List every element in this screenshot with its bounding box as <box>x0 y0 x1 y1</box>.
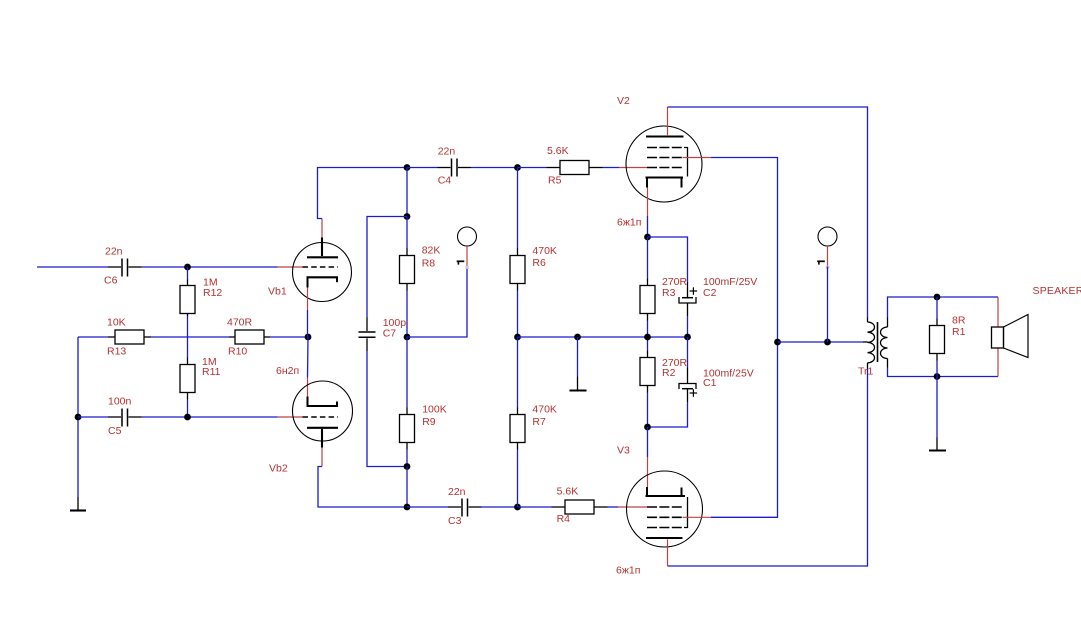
node col A / C7 branch <box>404 213 411 220</box>
svg-text:82K: 82K <box>422 245 441 257</box>
svg-text:22n: 22n <box>448 486 466 498</box>
V3 pin cathode <box>647 457 649 487</box>
svg-text:100n: 100n <box>108 396 132 408</box>
svg-text:5.6K: 5.6K <box>557 486 579 498</box>
triode Vb1 <box>268 238 352 302</box>
node bus ground <box>574 334 581 341</box>
wire B+ row <box>778 341 864 343</box>
svg-text:6ж1п: 6ж1п <box>616 565 640 577</box>
wire bottom row to C3 <box>407 506 448 508</box>
svg-text:R11: R11 <box>202 366 221 378</box>
node C5/R11 <box>184 414 191 421</box>
node C5 left <box>75 414 82 421</box>
node g2 rail <box>774 339 781 346</box>
svg-text:R2: R2 <box>662 367 676 379</box>
wire node to R5 <box>518 167 547 169</box>
svg-text:C2: C2 <box>703 287 717 299</box>
svg-text:SPEAKER: SPEAKER <box>1033 285 1081 297</box>
node bottom row R7 <box>514 504 521 511</box>
wire R12 to R11 <box>187 317 189 358</box>
resistor R2 <box>640 351 688 393</box>
wire C3 to node <box>482 506 518 508</box>
wire V2 anode row <box>668 107 868 318</box>
svg-text:R3: R3 <box>662 287 676 299</box>
node V2 cathode <box>644 234 651 241</box>
wire top row to C4 <box>407 167 438 169</box>
resistor R3 <box>640 276 688 320</box>
wire secondary top <box>888 297 999 318</box>
wire terminal 2 down <box>827 267 829 343</box>
wire input row <box>37 266 108 268</box>
svg-text:470K: 470K <box>532 404 557 416</box>
pentode V3 <box>616 471 703 577</box>
triode Vb2 <box>269 381 353 475</box>
svg-text:470R: 470R <box>227 316 253 328</box>
Vb1 pin cathode <box>307 288 309 311</box>
svg-text:R13: R13 <box>107 346 126 358</box>
node bus col A <box>404 334 411 341</box>
wire col A to R8 <box>406 217 408 249</box>
wire R5 to V2 grid <box>603 167 620 169</box>
svg-text:R1: R1 <box>952 326 966 338</box>
wire R3 to bus <box>647 321 649 351</box>
wire C5 to Vb2 grid <box>142 416 278 418</box>
node R1 bottom <box>934 373 941 380</box>
svg-text:C3: C3 <box>448 515 462 527</box>
V3 pin anode <box>667 539 669 566</box>
node bus C1 <box>684 334 691 341</box>
wire secondary bottom <box>888 368 999 377</box>
svg-text:22n: 22n <box>105 246 123 258</box>
speaker pins <box>997 297 999 327</box>
svg-text:C5: C5 <box>108 425 122 437</box>
node R1 top <box>934 294 941 301</box>
resistor R8 <box>400 245 441 291</box>
svg-text:R12: R12 <box>203 287 222 299</box>
svg-text:R4: R4 <box>557 513 571 525</box>
resistor R13 <box>107 316 151 357</box>
wire C7 bottom to node <box>367 351 407 467</box>
svg-text:R5: R5 <box>548 175 562 187</box>
wire node to R4 <box>518 506 552 508</box>
wire col A top <box>406 168 408 217</box>
ground mid <box>570 337 587 391</box>
wire V3 anode row <box>668 369 868 567</box>
resistor R5 <box>547 145 603 187</box>
wire R2 to V3 node <box>647 393 649 428</box>
wire Vb1 anode to top row <box>318 168 408 219</box>
svg-text:22n: 22n <box>438 146 456 158</box>
resistor R9 <box>400 404 447 450</box>
capacitor C2 <box>679 276 757 316</box>
wire C5 row left <box>78 416 108 418</box>
wire node to Vb2 cathode <box>307 337 310 378</box>
svg-text:Tr1: Tr1 <box>858 366 874 378</box>
svg-text:V3: V3 <box>617 445 630 457</box>
wire C1 to V3 node <box>648 402 688 427</box>
capacitor C6 <box>104 246 142 287</box>
svg-text:6н2п: 6н2п <box>276 365 299 377</box>
resistor R6 <box>510 168 557 338</box>
capacitor C7 <box>359 317 407 351</box>
terminal 1 left <box>457 227 477 269</box>
V3 pin g2 <box>683 516 712 518</box>
V2 pin cathode <box>647 188 649 217</box>
svg-text:470K: 470K <box>532 245 557 257</box>
wire Vb2 anode to bottom row <box>318 467 407 508</box>
Vb1 pin anode <box>321 219 323 238</box>
node cathode junction <box>305 334 312 341</box>
wire R13 to R10 <box>151 336 229 338</box>
pentode V2 <box>617 95 702 228</box>
svg-text:C6: C6 <box>104 275 118 287</box>
node terminal 2 <box>824 339 831 346</box>
svg-text:R6: R6 <box>532 257 546 269</box>
wire node to R12 <box>187 267 189 280</box>
transformer Tr1 <box>858 318 888 378</box>
wire node to bottom row <box>406 467 408 508</box>
ground right <box>929 377 946 451</box>
resistor R10 <box>227 316 270 357</box>
svg-text:R7: R7 <box>532 416 546 428</box>
wire C6 to Vb1 grid <box>142 266 278 268</box>
capacitor C5 <box>108 396 142 438</box>
svg-text:C4: C4 <box>438 175 452 187</box>
svg-text:10K: 10K <box>107 316 126 328</box>
node bus R6/R7 <box>514 334 521 341</box>
wire left rail <box>77 337 79 497</box>
svg-text:5.6K: 5.6K <box>547 145 569 157</box>
wire g2 rail <box>711 158 778 518</box>
resistor R11 <box>180 356 221 399</box>
wire C2 to bus <box>687 316 689 337</box>
svg-text:R8: R8 <box>422 257 436 269</box>
terminal 1 right <box>817 227 837 269</box>
svg-text:Vb2: Vb2 <box>269 463 288 475</box>
svg-text:C1: C1 <box>703 377 717 389</box>
node bus R2 <box>644 334 651 341</box>
Vb2 pin cathode <box>307 378 309 397</box>
wire node to V3 <box>647 427 649 457</box>
wire R9 column <box>406 337 408 408</box>
capacitor C3 <box>448 486 482 527</box>
wire V2 cathode <box>647 216 649 237</box>
node top row R6 <box>514 164 521 171</box>
wire bus to terminal branch <box>407 267 467 338</box>
Vb2 pin anode <box>321 448 323 467</box>
node C6/R12 <box>184 264 191 271</box>
svg-text:100K: 100K <box>422 404 447 416</box>
wire Vb1 cathode to node <box>307 310 309 334</box>
node C7/R9 <box>404 463 411 470</box>
svg-text:R9: R9 <box>422 416 436 428</box>
wire R8 to bus <box>406 291 408 338</box>
svg-text:R10: R10 <box>228 346 247 358</box>
capacitor C1 <box>679 337 754 402</box>
svg-text:C7: C7 <box>383 328 397 340</box>
svg-text:V2: V2 <box>617 95 630 107</box>
resistor R7 <box>510 337 557 507</box>
wire R9 to node <box>406 450 408 467</box>
svg-text:8R: 8R <box>952 315 966 327</box>
wire R11 to C5 row <box>187 400 189 418</box>
wire node to R3 <box>647 237 649 279</box>
node bottom row col A <box>404 504 411 511</box>
resistor R4 <box>552 486 608 526</box>
wire left rail top <box>78 336 108 338</box>
wire mid bus <box>518 336 688 338</box>
node top row col A <box>404 164 411 171</box>
wire C7 branch <box>367 217 407 318</box>
node V3 cathode <box>644 424 651 431</box>
capacitor C4 <box>438 146 472 187</box>
speaker <box>992 285 1081 357</box>
wire R4 to V3 grid <box>608 506 619 508</box>
wire cathode node to C2 <box>648 237 688 282</box>
resistor R12 <box>180 277 222 317</box>
resistor R1 <box>930 297 966 377</box>
V2 pin g2 <box>683 157 712 159</box>
svg-text:Vb1: Vb1 <box>268 286 287 298</box>
svg-text:6ж1п: 6ж1п <box>617 216 641 228</box>
V2 pin anode <box>667 107 669 135</box>
wire C4 to node <box>471 167 518 169</box>
ground left <box>70 497 86 511</box>
wire R10 to cathode node <box>270 336 308 338</box>
